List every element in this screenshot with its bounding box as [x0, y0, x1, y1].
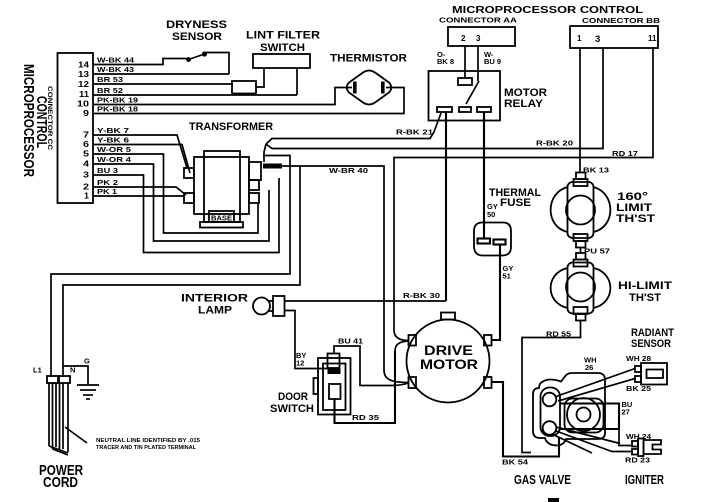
svg-text:R-BK 30: R-BK 30 — [403, 291, 440, 300]
svg-text:BU 3: BU 3 — [97, 166, 118, 175]
wire relay right contact to thermal fuse GY 50 — [483, 112, 485, 239]
svg-text:13: 13 — [78, 70, 90, 79]
svg-text:W-OR 5: W-OR 5 — [97, 145, 131, 154]
svg-text:12: 12 — [296, 359, 304, 368]
thermal fuse body — [474, 223, 511, 256]
wire RD 23 gas valve to igniter — [556, 431, 632, 452]
wire PU 57 — [580, 248, 582, 254]
wire W-BU 9 connector AA pin3 to relay — [477, 46, 479, 81]
lint filter switch box — [253, 54, 310, 68]
wire PK 1 pin1 to transformer — [93, 195, 184, 197]
svg-text:DOOR: DOOR — [278, 391, 308, 403]
svg-text:26: 26 — [585, 363, 593, 372]
svg-text:27: 27 — [622, 408, 630, 417]
svg-text:FUSE: FUSE — [500, 197, 531, 209]
svg-text:SWITCH: SWITCH — [270, 403, 314, 415]
neutral line callout — [65, 427, 87, 443]
wire R-BK 30 interior lamp to motor relay — [285, 300, 447, 302]
wire WH 24 gas valve to igniter — [556, 427, 620, 444]
svg-text:SENSOR: SENSOR — [631, 338, 671, 350]
motor relay coil contact — [458, 78, 472, 85]
wire BY 12 interior lamp to door switch — [285, 311, 329, 369]
wire N power cord to W-BR 40 — [63, 167, 300, 378]
power cord wires — [49, 383, 68, 455]
svg-text:TH'ST: TH'ST — [629, 292, 661, 304]
svg-text:14: 14 — [78, 61, 90, 70]
svg-text:BU 9: BU 9 — [484, 57, 501, 66]
wire GY 51 thermal fuse to drive motor — [492, 245, 501, 341]
svg-text:2: 2 — [83, 183, 90, 192]
wire dryness sensor to W-BK 43 — [206, 53, 229, 75]
wire lint filter switch to BR 52 — [296, 68, 298, 95]
wire L1 power cord to transformer — [51, 156, 290, 378]
svg-text:BR 52: BR 52 — [97, 86, 123, 95]
igniter — [632, 439, 661, 457]
label MOTOR RELAY — [504, 87, 547, 110]
label 160 LIMIT TH'ST — [616, 191, 655, 225]
svg-text:SENSOR: SENSOR — [172, 31, 222, 43]
wire gas valve lower diagonal — [554, 435, 592, 453]
svg-text:BK 8: BK 8 — [437, 57, 454, 66]
svg-text:TRANSFORMER: TRANSFORMER — [189, 121, 273, 133]
wire BK 13 connector BB pin1 to 160 limit thermostat — [579, 48, 581, 172]
inline connector on BR 53 — [232, 81, 256, 94]
svg-text:3: 3 — [83, 171, 90, 180]
svg-text:7: 7 — [83, 131, 90, 140]
svg-text:R-BK 21: R-BK 21 — [396, 128, 433, 137]
svg-text:51: 51 — [503, 272, 511, 281]
svg-text:G: G — [84, 357, 90, 366]
wire O-BK 8 connector AA pin2 to relay — [464, 46, 466, 78]
svg-text:9: 9 — [83, 109, 90, 118]
label L1 N G — [33, 357, 90, 375]
radiant sensor — [635, 363, 667, 385]
svg-text:RD 55: RD 55 — [546, 330, 571, 339]
svg-text:PK-BK 18: PK-BK 18 — [97, 105, 138, 114]
connector CC box — [58, 53, 94, 203]
transformer T1 — [184, 151, 261, 228]
svg-text:Y-BK 6: Y-BK 6 — [97, 136, 129, 145]
label THERMAL FUSE — [489, 187, 541, 209]
svg-text:RD 17: RD 17 — [612, 149, 638, 158]
wire W-OR 4 pin4 loop to transformer right — [93, 164, 269, 241]
svg-text:TH'ST: TH'ST — [616, 213, 655, 225]
wire WH 28 gas valve to radiant sensor — [556, 369, 635, 397]
svg-text:W-OR 4: W-OR 4 — [97, 155, 132, 164]
svg-text:5: 5 — [83, 150, 90, 159]
hi-limit thermostat — [551, 253, 611, 321]
svg-text:CONNECTOR AA: CONNECTOR AA — [439, 16, 518, 25]
svg-text:INTERIOR: INTERIOR — [181, 293, 248, 305]
wire BR 53 pin12 to inline connector — [93, 83, 232, 85]
svg-text:50: 50 — [487, 210, 495, 219]
svg-text:BU 41: BU 41 — [338, 337, 363, 346]
gas valve — [533, 373, 605, 446]
wire BK 25 gas valve to radiant sensor — [558, 379, 635, 402]
svg-text:Y-BK 7: Y-BK 7 — [97, 126, 129, 135]
wire BU 41 door switch to drive motor — [334, 346, 392, 386]
connector BB box — [570, 26, 658, 48]
motor relay bottom contacts — [437, 107, 452, 112]
label POWER CORD — [39, 462, 83, 491]
svg-text:THERMISTOR: THERMISTOR — [330, 53, 407, 65]
wire inline connector to lint filter switch — [256, 68, 264, 87]
svg-text:L1: L1 — [33, 366, 42, 375]
svg-text:BR 53: BR 53 — [97, 75, 123, 84]
label RADIANT SENSOR — [631, 327, 674, 350]
wire RD 55 hi-limit to gas valve — [522, 321, 581, 453]
svg-text:2: 2 — [461, 34, 466, 43]
svg-text:3: 3 — [595, 34, 600, 45]
wire RD 17 connector BB pin11 to drive motor — [394, 48, 653, 330]
wire BK 54 drive motor to gas valve — [492, 382, 560, 457]
motor relay switch arm — [466, 81, 479, 104]
connector CC pin numbers — [77, 61, 90, 201]
page mark bottom center — [548, 498, 559, 502]
thermistor terminals — [353, 82, 357, 94]
svg-text:R-BK 20: R-BK 20 — [536, 139, 573, 148]
wire PK-BK 18 pin9 to thermistor — [93, 88, 404, 114]
wire RD 35 door switch to drive motor — [335, 351, 396, 423]
svg-text:MOTOR: MOTOR — [420, 356, 478, 372]
svg-text:WH 28: WH 28 — [626, 354, 651, 363]
svg-text:TRACER AND TIN PLATED TERMINAL: TRACER AND TIN PLATED TERMINAL — [96, 445, 197, 451]
label LINT FILTER SWITCH — [246, 30, 320, 55]
wire BU 3 pin3 loop to transformer right — [93, 175, 279, 253]
svg-text:11: 11 — [648, 34, 657, 43]
label DOOR SWITCH — [270, 391, 314, 415]
svg-text:DRYNESS: DRYNESS — [166, 19, 227, 31]
svg-text:LINT FILTER: LINT FILTER — [246, 30, 320, 42]
svg-text:PU 57: PU 57 — [584, 247, 610, 256]
wire BU 27 gas valve solenoid — [560, 404, 619, 430]
door switch — [314, 354, 351, 415]
svg-text:CONNECTOR CC: CONNECTOR CC — [46, 86, 53, 150]
svg-text:HI-LIMIT: HI-LIMIT — [618, 280, 672, 292]
svg-text:6: 6 — [83, 140, 90, 149]
label INTERIOR LAMP — [181, 293, 248, 317]
interior lamp — [253, 296, 285, 316]
wire W-BK 44 pin14 to dryness sensor — [93, 59, 187, 65]
svg-text:GAS VALVE: GAS VALVE — [514, 473, 571, 487]
label WH 26 — [584, 356, 597, 373]
wire stub from transformer top tab — [264, 144, 266, 162]
svg-text:BK 25: BK 25 — [626, 384, 651, 393]
svg-text:BASE: BASE — [211, 216, 232, 223]
svg-text:CORD: CORD — [43, 474, 78, 491]
svg-text:BK 13: BK 13 — [583, 166, 609, 175]
svg-text:RELAY: RELAY — [504, 98, 544, 110]
wire W-OR 5 pin5 loop to transformer right — [93, 154, 258, 233]
svg-text:PK 2: PK 2 — [97, 178, 118, 187]
ground symbol — [63, 366, 99, 399]
drive motor M1 — [407, 313, 492, 403]
wire PK 2 pin2 to transformer — [93, 187, 186, 195]
svg-text:IGNITER: IGNITER — [625, 473, 664, 487]
thermistor body — [347, 71, 392, 105]
svg-text:4: 4 — [83, 160, 90, 169]
wire BR 52 pin11 — [93, 94, 297, 96]
power cord terminals — [47, 376, 58, 383]
svg-text:1: 1 — [577, 34, 582, 43]
svg-text:PK-BK 19: PK-BK 19 — [97, 96, 138, 105]
svg-text:NEUTRAL LINE IDENTIFIED BY .01: NEUTRAL LINE IDENTIFIED BY .015 — [96, 438, 200, 444]
svg-text:W-BK 43: W-BK 43 — [97, 65, 134, 74]
svg-text:3: 3 — [476, 34, 481, 43]
svg-text:CONNECTOR BB: CONNECTOR BB — [582, 16, 661, 25]
svg-text:MICROPROCESSOR CONTROL: MICROPROCESSOR CONTROL — [452, 4, 644, 16]
svg-text:W-BK 44: W-BK 44 — [97, 56, 135, 65]
svg-text:W-BR 40: W-BR 40 — [329, 166, 368, 175]
wire R-BK 21 transformer to motor relay — [266, 113, 441, 144]
160 limit thermostat — [551, 173, 611, 248]
wire PK-BK 19 pin10 to thermistor — [93, 88, 352, 105]
svg-text:RD 35: RD 35 — [352, 413, 379, 422]
wire Y-BK 7 pin7 to transformer — [93, 135, 187, 168]
connector AA box — [448, 27, 515, 46]
thermal fuse terminals — [478, 239, 491, 244]
wire W-BK 43 pin13 — [93, 73, 229, 75]
svg-text:SWITCH: SWITCH — [260, 42, 305, 54]
svg-text:1: 1 — [84, 192, 90, 201]
svg-text:10: 10 — [77, 100, 90, 109]
svg-text:LAMP: LAMP — [198, 305, 232, 317]
svg-text:11: 11 — [79, 90, 90, 99]
svg-text:12: 12 — [78, 80, 90, 89]
wire R-BK 20 transformer to connector BB pin 3 — [266, 48, 603, 149]
svg-text:BK 54: BK 54 — [502, 458, 529, 467]
dryness sensor switch contacts — [186, 57, 191, 62]
wire Y-BK 6 pin6 to transformer — [93, 145, 190, 174]
wire W-BR 40 transformer to drive motor — [263, 164, 282, 169]
svg-text:PK 1: PK 1 — [97, 187, 117, 196]
label MICROPROCESSOR CONTROL (left vertical) — [21, 64, 51, 177]
label HI-LIMIT TH'ST — [618, 280, 672, 304]
label DRYNESS SENSOR — [166, 19, 227, 43]
wire relay left contact down to R-BK 30 junction — [445, 112, 447, 301]
motor relay box — [429, 71, 501, 121]
